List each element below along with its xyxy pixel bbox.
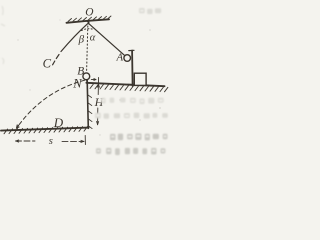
pole top cap <box>129 49 134 51</box>
vertical dotted line from O down to ball B <box>87 26 88 72</box>
projectile trajectory (dashed parabola from B to ground) <box>19 80 85 125</box>
svg-text:N: N <box>72 76 82 90</box>
H dimension line <box>98 78 99 125</box>
ceiling <box>67 19 110 23</box>
ball B (small circle on step corner) <box>83 73 90 80</box>
block on ledge <box>134 73 146 85</box>
small arrow right of ball B <box>91 78 96 80</box>
svg-text:C: C <box>43 56 52 70</box>
s dimension line <box>16 140 85 142</box>
trajectory end arrowhead <box>17 126 19 129</box>
string OC (dash-dot, left) <box>53 24 88 65</box>
angle arc (dotted) <box>82 29 95 31</box>
pole (vertical rod on ledge) <box>131 51 134 86</box>
step face hatching <box>88 95 92 129</box>
ball A (small circle against pole) <box>124 55 131 62</box>
node O (hook under ceiling) <box>87 21 90 23</box>
svg-text:A: A <box>116 51 124 63</box>
step face (vertical wall of ledge) <box>87 81 88 129</box>
svg-text:D: D <box>53 115 64 130</box>
svg-text:β: β <box>78 34 85 46</box>
upper ledge hatching <box>90 84 168 92</box>
s dimension right tick <box>84 136 86 145</box>
svg-text:O: O <box>85 7 93 19</box>
paper speckles <box>17 19 161 135</box>
ball B stem <box>86 80 89 83</box>
upper ledge line <box>86 83 164 86</box>
ceiling hatching <box>68 16 111 22</box>
svg-text:s: s <box>49 136 53 147</box>
lower ground line <box>1 128 89 131</box>
lower ground hatching <box>4 126 88 133</box>
faint print bleed-through, bottom right <box>1 6 168 155</box>
string OA (right, to ball A) <box>89 24 124 55</box>
svg-text:α: α <box>90 32 96 43</box>
